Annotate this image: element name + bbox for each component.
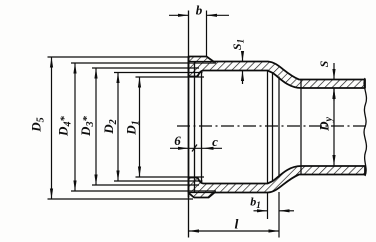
socket end edge line 3 (extension for b1 right / l right) [278,77,280,178]
svg-text:S1: S1 [230,39,246,50]
svg-text:S: S [317,60,331,67]
dimension 6 / c (mouth lip widths) [170,147,222,149]
dimension l (socket length) [189,230,280,232]
svg-text:D3*: D3* [78,116,96,137]
svg-text:D1: D1 [124,120,142,135]
mouth interior line 3 [201,71,203,184]
svg-text:6: 6 [174,133,181,148]
pipe top wall section (socket to pipe, hatched) [189,57,366,89]
wire: socket mouth face line (also extension for b and l) [188,11,190,238]
dimension D2 [114,72,203,74]
svg-text:c: c [212,134,218,149]
svg-text:b1: b1 [250,195,261,211]
dimension D3* [92,67,199,69]
svg-text:l: l [235,218,239,233]
break line (wavy) at right [364,78,366,176]
dimension Dy (pipe bore) [333,89,335,166]
socket outer surface line over bottom bead [189,192,214,194]
svg-text:D5: D5 [29,117,47,132]
svg-text:D4*: D4* [55,116,73,137]
svg-text:D2: D2 [101,119,119,134]
cone to pipe junction line [300,80,302,174]
socket outer surface line under top bead [189,61,214,63]
svg-text:Dy: Dy [317,117,335,132]
dimension S (pipe wall thickness) [333,63,335,80]
mouth interior line 2 [194,62,196,193]
socket end edge line 2 [272,73,274,182]
dimension b (top) [206,11,208,57]
svg-text:b: b [196,3,203,18]
dimension D1 [136,76,205,78]
dimension D4* [71,62,216,64]
dimension D5 [48,56,191,58]
centerline [177,125,368,127]
dimension S1 (socket wall thickness) [242,53,244,62]
socket end edge line 1 [267,71,269,184]
pipe bottom wall section (socket to pipe, hatched) [189,166,366,198]
dimension b1 (bottom) [267,193,269,219]
